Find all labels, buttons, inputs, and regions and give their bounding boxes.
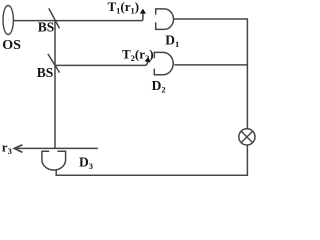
svg-text:D3: D3 — [79, 154, 93, 171]
detector D3 — [42, 151, 66, 170]
svg-text:D2: D2 — [152, 78, 166, 95]
coincidence counter circle — [239, 129, 255, 145]
svg-text:T2(r2): T2(r2) — [122, 47, 154, 64]
svg-text:BS: BS — [37, 65, 54, 80]
detector D1 — [156, 9, 174, 30]
svg-text:BS: BS — [38, 19, 55, 34]
arrowhead A2 up — [145, 57, 151, 62]
svg-text:OS: OS — [2, 38, 21, 53]
svg-text:T1(r1): T1(r1) — [108, 0, 140, 16]
wire D2 to right bus — [174, 64, 247, 66]
source lens OS — [3, 5, 13, 34]
coincidence counter X — [241, 131, 252, 142]
wire circle to bottom bus — [56, 145, 247, 175]
wire BS1 vertical down to r3 line — [54, 21, 56, 149]
wire D1 to right bus — [174, 19, 248, 129]
arrowhead A1 up — [140, 9, 146, 14]
svg-text:r3: r3 — [2, 139, 12, 156]
arrowhead r3 — [14, 145, 22, 153]
wire OS to arrow A1 — [13, 13, 143, 21]
svg-text:D1: D1 — [165, 32, 179, 49]
wire BS2 to arrow A2 — [55, 61, 148, 66]
detector D2 — [154, 52, 173, 74]
beam splitter BS1 slash — [49, 8, 60, 28]
wire r3 with left arrow — [15, 147, 98, 149]
beam splitter BS2 slash — [48, 54, 60, 73]
